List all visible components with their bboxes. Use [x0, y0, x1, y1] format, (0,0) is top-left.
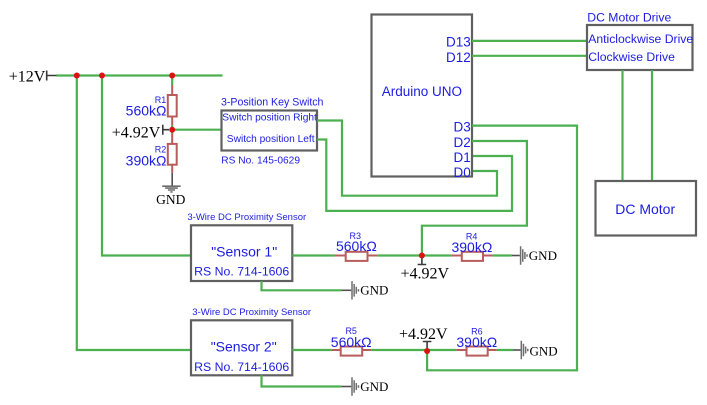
wire sensor1 output to R3 — [292, 254, 335, 256]
svg-text:D12: D12 — [446, 50, 471, 65]
node junction 1 on rail — [74, 73, 80, 79]
wire sensor2 output to R5 — [292, 349, 331, 351]
svg-text:+4.92V: +4.92V — [401, 265, 450, 282]
svg-text:D1: D1 — [454, 150, 471, 165]
svg-text:D3: D3 — [454, 120, 471, 135]
resistor R3 — [335, 252, 378, 261]
resistor R2 — [168, 134, 177, 173]
ground symbol below R2 — [162, 186, 181, 192]
svg-text:DC Motor: DC Motor — [615, 201, 675, 217]
svg-text:560kΩ: 560kΩ — [331, 334, 372, 350]
svg-text:Clockwise Drive: Clockwise Drive — [588, 50, 675, 64]
wire divider node to key switch — [172, 129, 221, 131]
wire sensor2 bottom pin to ground — [262, 375, 342, 386]
resistor R4 — [451, 252, 492, 261]
resistor R6 — [456, 347, 496, 356]
ground symbol sensor2 — [341, 386, 351, 388]
Arduino UNO box U1 — [372, 15, 473, 177]
wire rail to R1 top — [171, 76, 173, 86]
svg-text:GND: GND — [360, 283, 388, 298]
svg-text:GND: GND — [156, 192, 185, 207]
wire R4 to ground — [493, 254, 512, 256]
wire R6 to ground — [497, 349, 513, 351]
wire R3 to sensor1 node — [377, 254, 422, 256]
wire Arduino D13 to drive box — [472, 40, 587, 42]
svg-text:D2: D2 — [454, 135, 471, 150]
svg-text:D13: D13 — [446, 34, 471, 49]
svg-text:RS No. 714-1606: RS No. 714-1606 — [194, 360, 289, 374]
svg-text:390kΩ: 390kΩ — [126, 153, 167, 169]
wire +12V rail — [57, 74, 223, 76]
power label +4.92V (sensor2) — [399, 326, 448, 351]
DC motor drive box U3 — [587, 25, 693, 70]
wire R5 to sensor2 node — [371, 349, 427, 351]
svg-text:+4.92V: +4.92V — [399, 326, 448, 343]
svg-text:GND: GND — [360, 379, 388, 394]
svg-text:RS No. 145-0629: RS No. 145-0629 — [221, 156, 300, 167]
resistor R1 — [168, 85, 177, 125]
svg-text:RS No. 714-1606: RS No. 714-1606 — [194, 264, 289, 278]
wire drive box to motor (right) — [651, 70, 653, 181]
wire Arduino D12 to drive box — [472, 55, 587, 57]
svg-text:Switch position Left: Switch position Left — [227, 134, 315, 145]
svg-text:+4.92V: +4.92V — [112, 125, 161, 142]
wire left vertical to Sensor 2 supply — [77, 76, 191, 351]
svg-text:3-Position Key Switch: 3-Position Key Switch — [221, 96, 324, 108]
node sensor1 +4.92V junction — [419, 253, 425, 259]
svg-text:3-Wire DC Proximity Sensor: 3-Wire DC Proximity Sensor — [187, 212, 306, 223]
ground symbol sensor1 — [341, 289, 351, 291]
ground symbol after R6 — [513, 349, 521, 351]
wire Arduino D2 to sensor1 node — [422, 141, 527, 256]
node sensor2 +4.92V junction — [424, 348, 430, 354]
svg-text:Switch position Right: Switch position Right — [222, 113, 317, 124]
svg-text:GND: GND — [529, 248, 557, 263]
wire sensor2 node to R6 — [427, 349, 456, 351]
node divider junction — [169, 127, 175, 133]
Sensor 1 box — [191, 225, 292, 281]
svg-text:Arduino UNO: Arduino UNO — [382, 84, 462, 99]
wire R1 bottom to divider node — [171, 125, 173, 133]
svg-text:560kΩ: 560kΩ — [126, 102, 167, 118]
wire sensor1 node to R4 — [422, 254, 451, 256]
Sensor 2 box — [191, 320, 292, 375]
node junction 2 on rail — [99, 73, 105, 79]
svg-text:"Sensor 2": "Sensor 2" — [211, 338, 277, 354]
svg-text:D0: D0 — [454, 165, 471, 180]
power label +4.92V (sensor1) — [401, 256, 450, 283]
svg-text:Anticlockwise Drive: Anticlockwise Drive — [588, 32, 693, 46]
wire sensor1 bottom pin to ground — [262, 281, 342, 290]
svg-text:390kΩ: 390kΩ — [456, 334, 497, 350]
svg-text:GND: GND — [530, 344, 558, 359]
svg-text:560kΩ: 560kΩ — [336, 238, 377, 254]
svg-text:+12V: +12V — [9, 69, 46, 86]
wire Arduino D3 to sensor2 node — [427, 126, 577, 371]
wire key switch Right pin to Arduino D0 — [317, 121, 497, 196]
node junction 3 on rail (R1 top) — [169, 73, 175, 79]
svg-text:DC Motor Drive: DC Motor Drive — [587, 11, 671, 25]
wire second vertical to Sensor 1 supply — [102, 76, 191, 256]
svg-text:390kΩ: 390kΩ — [451, 239, 492, 255]
wire key switch Left pin to Arduino D1 — [317, 140, 512, 211]
3-position key switch box U2 — [222, 111, 318, 151]
DC motor box M1 — [596, 181, 697, 236]
svg-text:3-Wire DC Proximity Sensor: 3-Wire DC Proximity Sensor — [192, 307, 311, 318]
svg-text:"Sensor 1": "Sensor 1" — [211, 243, 277, 259]
power label +4.92V at divider — [112, 125, 169, 142]
ground symbol after R4 — [512, 255, 520, 257]
wire R2 bottom stub — [171, 173, 173, 186]
resistor R5 — [332, 347, 372, 356]
wire drive box to motor (left) — [621, 70, 623, 181]
power label +12V — [9, 69, 57, 86]
